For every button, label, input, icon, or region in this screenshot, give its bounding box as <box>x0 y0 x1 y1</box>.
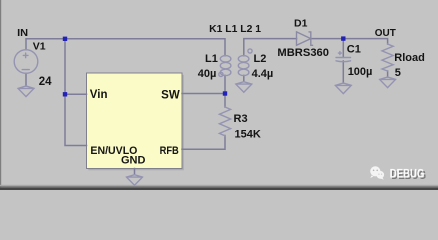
svg-text:K1 L1 L2 1: K1 L1 L2 1 <box>209 23 261 35</box>
svg-text:MBRS360: MBRS360 <box>277 47 329 59</box>
svg-text:154K: 154K <box>235 128 261 140</box>
svg-text:D1: D1 <box>294 18 308 30</box>
svg-text:5: 5 <box>395 67 401 79</box>
svg-text:C1: C1 <box>347 44 361 56</box>
svg-text:SW: SW <box>161 90 180 102</box>
svg-text:40µ: 40µ <box>198 68 217 80</box>
svg-text:100µ: 100µ <box>348 66 373 78</box>
svg-text:Rload: Rload <box>394 52 425 64</box>
svg-text:V1: V1 <box>33 41 46 53</box>
svg-text:OUT: OUT <box>375 27 397 39</box>
svg-text:GND: GND <box>121 154 146 166</box>
svg-text:Vin: Vin <box>90 89 108 101</box>
svg-text:L2: L2 <box>254 53 267 65</box>
svg-text:IN: IN <box>17 28 28 39</box>
svg-text:RFB: RFB <box>160 145 179 157</box>
svg-text:L1: L1 <box>205 53 218 65</box>
svg-text:DEBUG: DEBUG <box>390 168 425 180</box>
svg-text:R3: R3 <box>234 113 248 125</box>
svg-text:24: 24 <box>39 76 52 88</box>
svg-text:4.4µ: 4.4µ <box>252 68 274 80</box>
